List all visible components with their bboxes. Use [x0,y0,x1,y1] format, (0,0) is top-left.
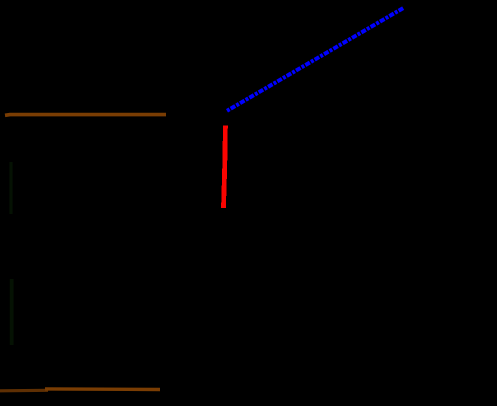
wire left dark-green vertical segment upper [9,162,12,214]
wire blue dashed diagonal segment [227,8,404,111]
wire bottom brown horizontal segment left part [0,389,48,393]
wire top brown horizontal segment [5,113,166,117]
wire red vertical segment [224,125,226,208]
wire bottom brown horizontal segment right part [45,387,160,391]
wire left dark-green vertical segment lower [10,279,14,345]
